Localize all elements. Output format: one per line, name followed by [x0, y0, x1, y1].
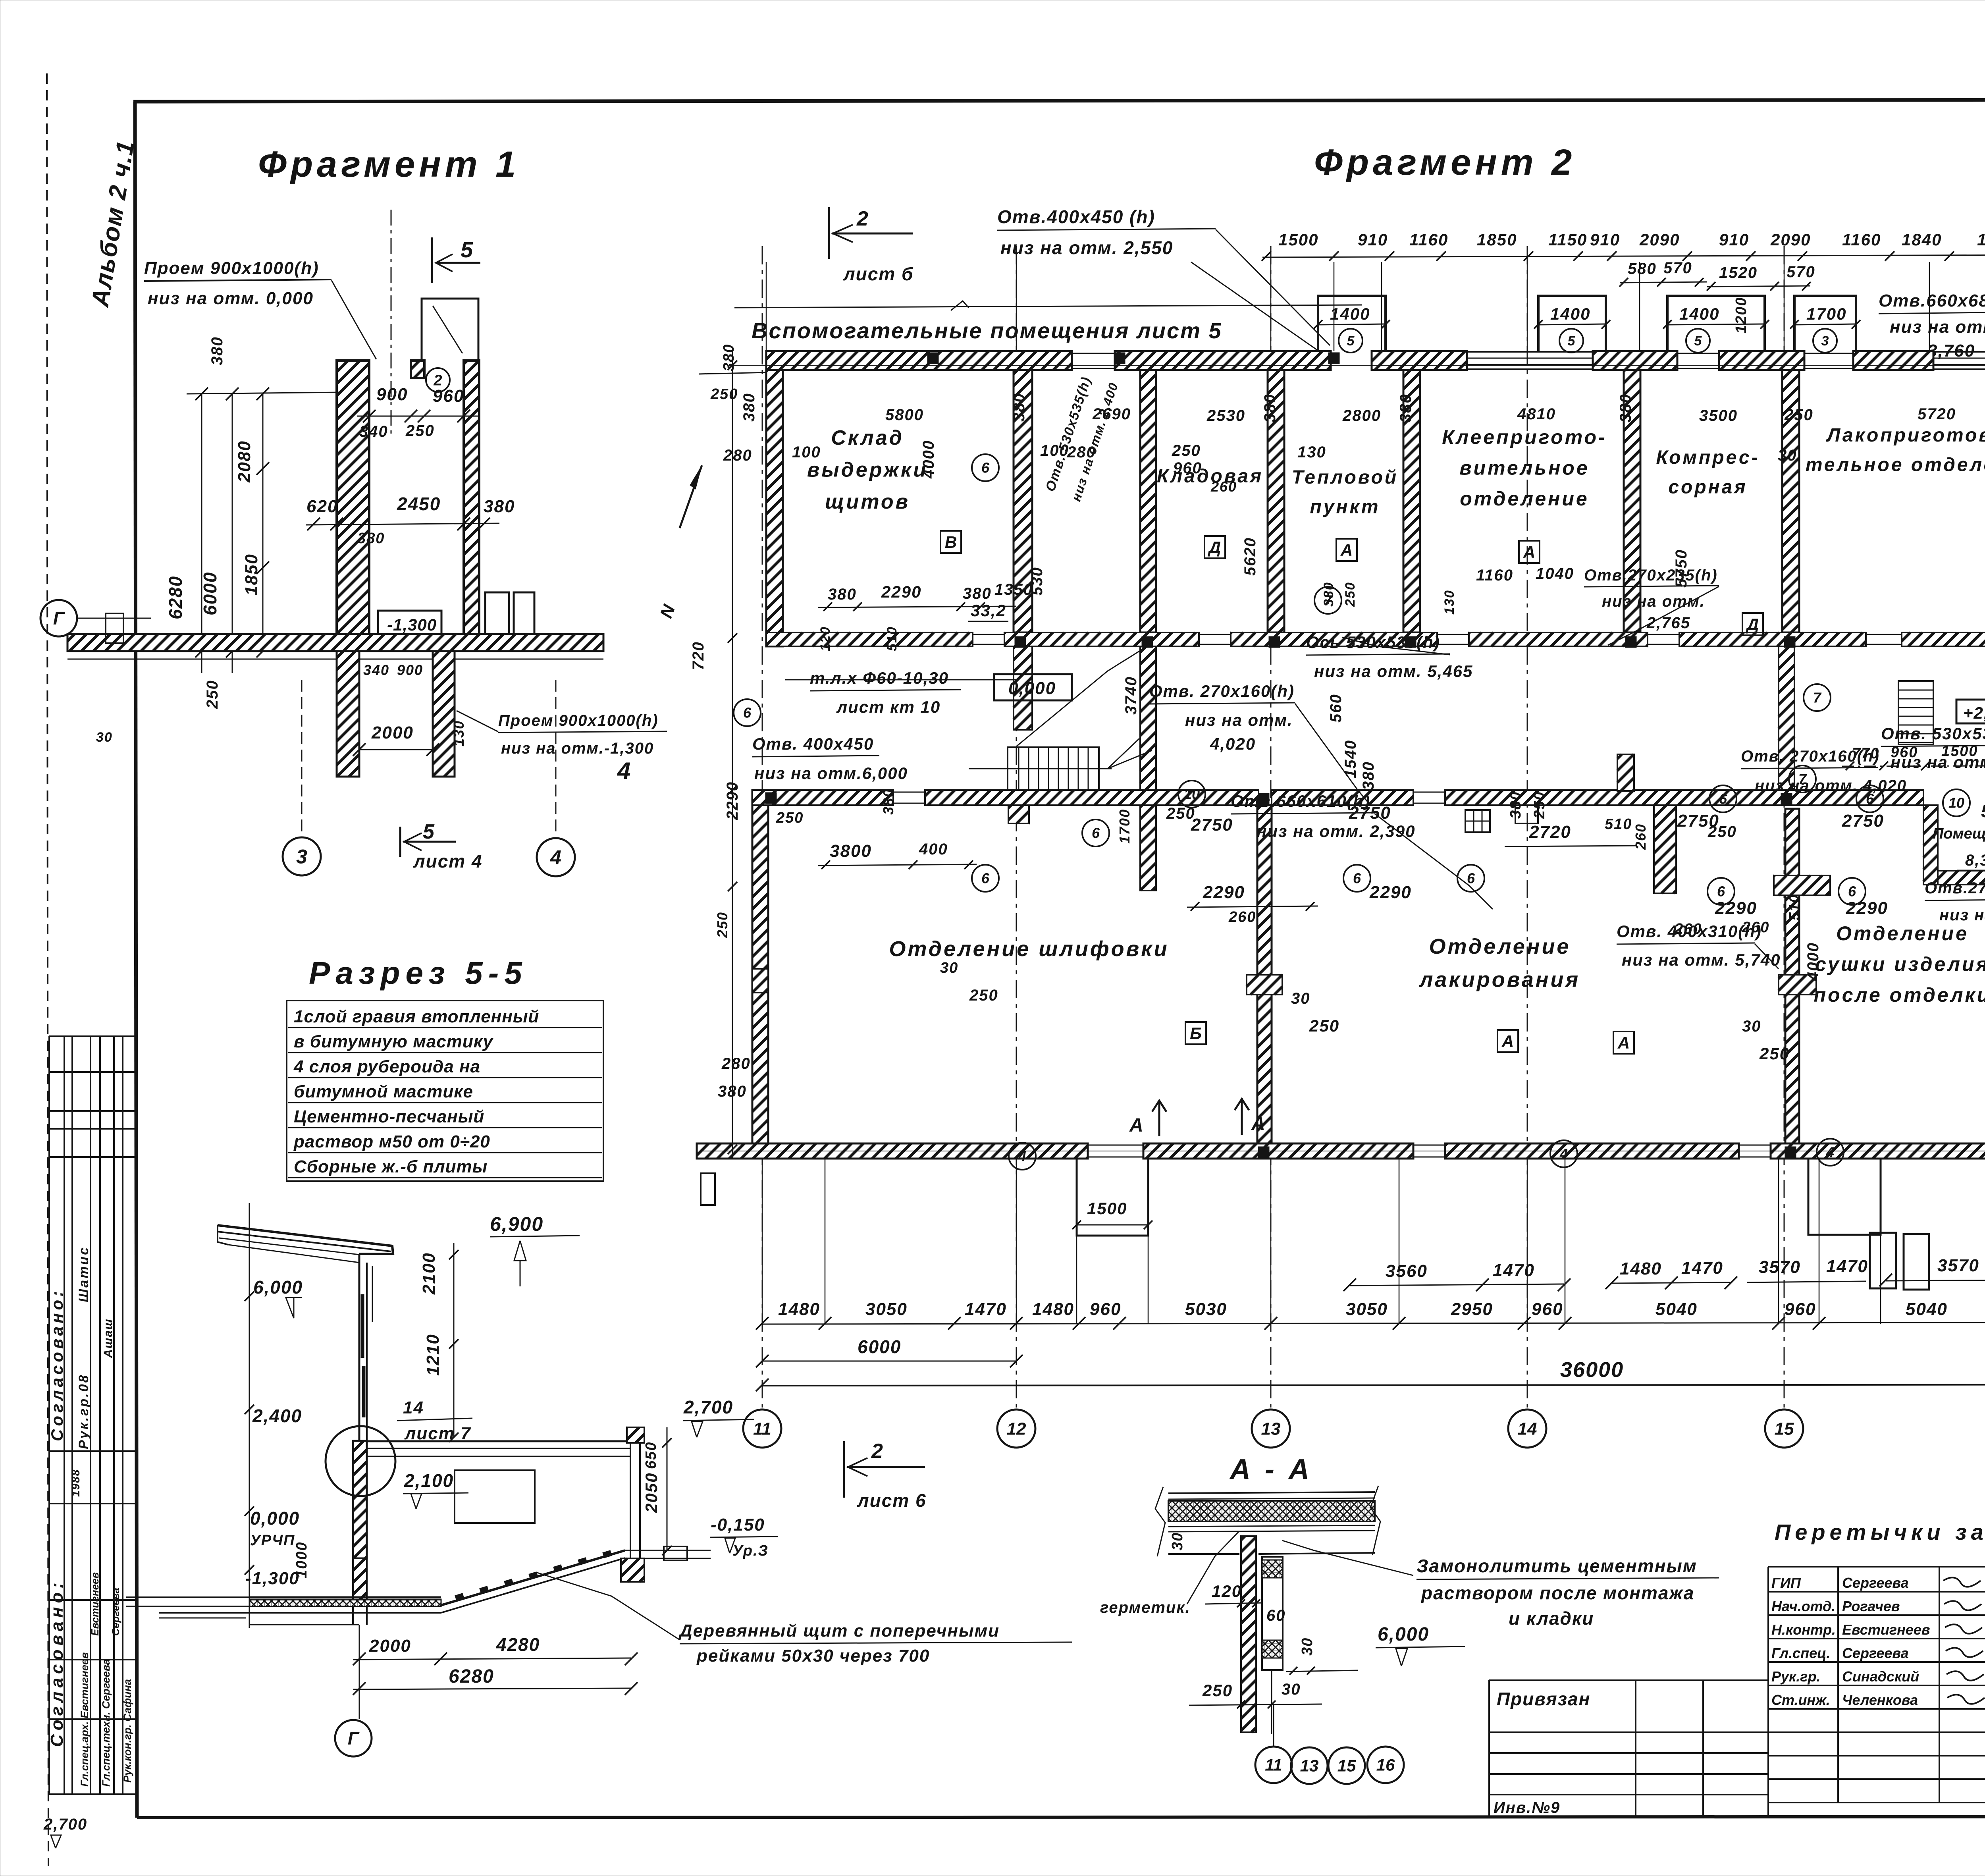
- left level dim line: [249, 1203, 250, 1628]
- wall: [1617, 754, 1634, 791]
- marker 2 list 6 (bottom): [843, 1441, 845, 1498]
- svg-text:250: 250: [1759, 1044, 1790, 1063]
- svg-text:лист 4: лист 4: [413, 851, 483, 871]
- svg-text:250: 250: [204, 680, 221, 709]
- svg-text:900: 900: [376, 385, 408, 404]
- svg-text:и кладки: и кладки: [1509, 1608, 1594, 1629]
- svg-text:Отв. 400х310(h): Отв. 400х310(h): [1617, 922, 1762, 941]
- entry porch 1500: [1077, 1159, 1148, 1236]
- svg-text:1160: 1160: [1476, 567, 1513, 584]
- svg-text:650: 650: [643, 1442, 659, 1469]
- note vspomogatelnye: [734, 305, 1362, 308]
- svg-text:Ур.З: Ур.З: [732, 1542, 769, 1559]
- svg-text:5720: 5720: [1918, 405, 1956, 423]
- lintel circle 7: [1314, 587, 1341, 614]
- svg-text:380: 380: [484, 497, 515, 516]
- svg-text:3570: 3570: [1937, 1256, 1979, 1275]
- svg-text:Проем 900х1000(h): Проем 900х1000(h): [498, 712, 659, 729]
- svg-text:15: 15: [1337, 1756, 1356, 1775]
- svg-text:Отв.660х685(h): Отв.660х685(h): [1879, 291, 1985, 310]
- wall: [752, 969, 768, 993]
- svg-text:2090: 2090: [1770, 230, 1811, 249]
- svg-text:6000: 6000: [858, 1336, 901, 1357]
- svg-text:А: А: [1617, 1033, 1630, 1052]
- lintel circle 6: [1707, 878, 1734, 905]
- svg-text:250: 250: [1202, 1681, 1233, 1700]
- svg-text:Цементно-песчаный: Цементно-песчаный: [294, 1107, 484, 1126]
- svg-text:низ на отм.: низ на отм.: [1890, 317, 1985, 337]
- svg-text:2,700: 2,700: [683, 1397, 733, 1417]
- svg-text:5: 5: [1347, 334, 1355, 349]
- wall: [1140, 646, 1156, 790]
- svg-text:60: 60: [1266, 1607, 1286, 1624]
- svg-text:Сергеева: Сергеева: [110, 1588, 121, 1636]
- svg-text:Деревянный щит с поперечными: Деревянный щит с поперечными: [678, 1621, 1000, 1641]
- svg-text:1850: 1850: [242, 553, 261, 596]
- fragment1 bottom circles: [301, 680, 303, 836]
- svg-text:30: 30: [1299, 1637, 1316, 1656]
- fragment1 left dim chains: [201, 393, 202, 673]
- svg-text:960: 960: [433, 386, 464, 406]
- svg-text:1400: 1400: [1330, 305, 1370, 323]
- fragment1 wall above cut: [422, 299, 478, 361]
- small room left wall: [1923, 805, 1938, 885]
- svg-text:Ось 530х535(h): Ось 530х535(h): [1306, 633, 1440, 652]
- svg-text:13: 13: [1300, 1756, 1319, 1775]
- svg-text:битумной мастике: битумной мастике: [294, 1082, 473, 1101]
- svg-text:340: 340: [363, 662, 389, 678]
- svg-text:8,3: 8,3: [1965, 852, 1985, 869]
- frame top border: [133, 99, 1985, 102]
- svg-text:Сборные ж.-б плиты: Сборные ж.-б плиты: [294, 1157, 488, 1176]
- top-band partition wall x3193: [1268, 370, 1284, 632]
- svg-text:-1,300: -1,300: [245, 1569, 300, 1588]
- svg-text:7: 7: [1324, 592, 1333, 609]
- svg-text:низ на отм. 2,390: низ на отм. 2,390: [1257, 822, 1415, 841]
- svg-text:6: 6: [1353, 870, 1361, 887]
- svg-text:36000: 36000: [1560, 1358, 1624, 1382]
- svg-text:3: 3: [296, 846, 307, 868]
- svg-text:30: 30: [1282, 1681, 1301, 1698]
- svg-text:низ на отм.-1,300: низ на отм.-1,300: [501, 740, 654, 757]
- small window left: [106, 613, 123, 643]
- grid circle 3: [283, 837, 321, 875]
- svg-text:5030: 5030: [1185, 1300, 1227, 1319]
- vertical extension lines bottom: [762, 1159, 763, 1324]
- window symbol 2: [514, 592, 534, 637]
- svg-text:250: 250: [1172, 442, 1201, 459]
- fragment1 floor slab (hatched): [67, 634, 603, 651]
- svg-text:т.л.х Ф60-10,30: т.л.х Ф60-10,30: [810, 669, 949, 687]
- svg-text:30: 30: [1742, 1018, 1761, 1035]
- svg-text:2750: 2750: [1677, 811, 1719, 831]
- svg-text:1040: 1040: [1536, 565, 1574, 582]
- svg-text:6: 6: [981, 460, 990, 476]
- svg-text:15: 15: [1775, 1419, 1794, 1438]
- svg-text:6280: 6280: [449, 1666, 494, 1687]
- top wall opening x4225-4330: [1677, 353, 1719, 354]
- section mark 5 (top): [431, 237, 433, 283]
- svg-text:510: 510: [1605, 816, 1632, 833]
- lintel circle 10: [1943, 789, 1970, 816]
- section mark 5 list4: [399, 827, 401, 857]
- 6000 dim row: [762, 1361, 1016, 1362]
- svg-text:А: А: [1523, 543, 1535, 561]
- fragment1 lower wall B: [433, 651, 455, 777]
- svg-text:А: А: [1501, 1032, 1514, 1051]
- leader note: [1282, 1541, 1413, 1575]
- wall junction squares: [1015, 636, 1026, 648]
- svg-text:3: 3: [1821, 334, 1829, 349]
- dim row above pomeschenie: [1842, 765, 1985, 766]
- svg-text:низ на отм. 4,020: низ на отм. 4,020: [1755, 777, 1907, 794]
- lintel circle 6: [1839, 878, 1866, 905]
- sheet left edge dashed line: [47, 73, 48, 1866]
- svg-text:1480: 1480: [1620, 1259, 1662, 1278]
- svg-text:А: А: [1340, 541, 1353, 559]
- svg-text:1500: 1500: [1278, 230, 1318, 249]
- svg-text:Евстигнеев: Евстигнеев: [1842, 1621, 1930, 1638]
- svg-text:380: 380: [208, 336, 226, 365]
- svg-text:720: 720: [690, 641, 707, 670]
- svg-text:400: 400: [919, 841, 948, 858]
- svg-text:2750: 2750: [1842, 811, 1884, 831]
- lintel circle 4: [1550, 1140, 1577, 1167]
- north arrow: [680, 465, 702, 528]
- privyazan box: [1489, 1679, 1768, 1681]
- roof fascia left: [218, 1225, 228, 1245]
- lintel circle 7: [1789, 765, 1816, 792]
- vestibule 1700: [1794, 296, 1856, 351]
- svg-text:13: 13: [1261, 1419, 1281, 1438]
- svg-text:960: 960: [1532, 1300, 1563, 1319]
- grid circle G razrez: [335, 1720, 372, 1756]
- exterior top wall segment x4012-4225: [1593, 351, 1677, 370]
- svg-text:570: 570: [1663, 259, 1692, 277]
- svg-text:1210: 1210: [423, 1334, 443, 1376]
- mid wall1 segment x3100: [1231, 632, 1437, 646]
- lintel circle 5: [1339, 329, 1363, 353]
- svg-text:0,000: 0,000: [250, 1508, 300, 1529]
- 36000 dim line: [762, 1384, 1985, 1386]
- svg-text:2720: 2720: [1529, 822, 1571, 842]
- stair arrow: [1108, 738, 1152, 769]
- svg-text:6,000: 6,000: [1378, 1624, 1429, 1645]
- svg-text:1000: 1000: [293, 1541, 310, 1578]
- break mark right: [1370, 1486, 1380, 1555]
- leader to ramp: [536, 1572, 680, 1640]
- ramp line: [441, 1550, 625, 1605]
- svg-text:2950: 2950: [1451, 1300, 1493, 1319]
- room class box В: [940, 531, 961, 553]
- bottom wall segment x3640: [1445, 1143, 1739, 1159]
- mid wall2 segment x2330: [925, 790, 1258, 805]
- svg-text:380: 380: [1617, 393, 1634, 422]
- svg-text:низ на отм. 5,465: низ на отм. 5,465: [1314, 662, 1473, 681]
- svg-text:тельное отделение: тельное отделение: [1806, 454, 1985, 475]
- svg-text:низ на отм. 5,740: низ на отм. 5,740: [1622, 951, 1781, 969]
- svg-text:2050: 2050: [642, 1473, 661, 1513]
- wall upper column: [358, 1254, 360, 1441]
- svg-text:Рук.гр.: Рук.гр.: [1771, 1668, 1821, 1685]
- svg-text:6280: 6280: [165, 576, 186, 619]
- svg-text:380: 380: [828, 586, 857, 603]
- slab layers: [1168, 1492, 1375, 1493]
- svg-text:А: А: [1251, 1113, 1266, 1134]
- svg-text:120: 120: [818, 626, 833, 651]
- svg-text:510: 510: [1786, 894, 1802, 920]
- stair landing edge line: [785, 679, 1016, 681]
- level box +2.500: [1956, 700, 1985, 723]
- grid circle 14: [1508, 1409, 1546, 1448]
- svg-text:250: 250: [714, 912, 730, 938]
- svg-text:2080: 2080: [235, 440, 254, 483]
- svg-text:250: 250: [776, 810, 804, 826]
- door notch below band: [1515, 805, 1538, 823]
- lintel circle 6: [1457, 865, 1484, 892]
- svg-text:УРЧП: УРЧП: [250, 1532, 295, 1549]
- grid square symbol: [1465, 810, 1490, 832]
- lintel circle 3: [1813, 329, 1837, 353]
- svg-text:Гл.спец.техн. Сергеева: Гл.спец.техн. Сергеева: [100, 1659, 112, 1787]
- svg-text:3740: 3740: [1122, 676, 1140, 715]
- svg-text:910: 910: [1358, 230, 1388, 249]
- svg-text:1160: 1160: [1842, 230, 1881, 249]
- svg-text:280: 280: [723, 447, 752, 464]
- svg-text:4: 4: [1559, 1146, 1568, 1162]
- svg-text:4: 4: [617, 758, 631, 784]
- stair enclosure wall: [1014, 646, 1032, 730]
- grid circle 12: [997, 1409, 1035, 1448]
- svg-text:Отв. 530х535(h): Отв. 530х535(h): [1881, 724, 1985, 743]
- kerb block: [664, 1546, 687, 1560]
- svg-text:Д: Д: [1208, 538, 1221, 557]
- pilaster on partition: [1774, 875, 1830, 895]
- svg-text:низ на отм.6,000: низ на отм.6,000: [754, 764, 908, 783]
- section wall hatched below 0: [353, 1558, 367, 1604]
- column line 12: [1016, 246, 1017, 1407]
- wall: [621, 1558, 644, 1582]
- svg-text:1150: 1150: [1548, 230, 1587, 249]
- fragment1 dim 900/960: [357, 416, 478, 417]
- left wall step connector: [752, 789, 766, 791]
- vestibule 1400: [1318, 296, 1386, 351]
- svg-text:510: 510: [885, 626, 900, 651]
- grid circle 13 (A-A): [1291, 1747, 1328, 1784]
- svg-text:250: 250: [1531, 791, 1548, 819]
- row mark G (fragment1): [40, 600, 77, 636]
- mid wall1 segment x1930: [766, 632, 973, 646]
- lintel circle 6: [1709, 785, 1736, 812]
- svg-text:отделение: отделение: [1460, 488, 1589, 510]
- frame left border: [135, 102, 137, 1818]
- svg-text:5140: 5140: [1981, 802, 1985, 821]
- lintel circle 6: [1082, 819, 1109, 846]
- svg-text:1840: 1840: [1902, 230, 1942, 249]
- svg-text:1520: 1520: [1719, 264, 1758, 281]
- lintel circle 4: [1817, 1139, 1844, 1166]
- svg-text:1470: 1470: [1493, 1261, 1535, 1280]
- svg-text:рейками 50х30 через 700: рейками 50х30 через 700: [696, 1646, 930, 1666]
- partition lakirovanie/sushka: [1785, 809, 1799, 1143]
- grid circle 13: [1252, 1409, 1290, 1448]
- svg-text:960: 960: [1090, 1300, 1121, 1319]
- svg-text:570: 570: [1786, 263, 1815, 281]
- mid wall1 segment x3700: [1469, 632, 1648, 646]
- left exterior wall (top part): [766, 370, 783, 646]
- ground line right: [625, 1550, 711, 1551]
- svg-text:1400: 1400: [1679, 305, 1719, 323]
- svg-text:1700: 1700: [1116, 809, 1133, 844]
- svg-text:2000: 2000: [371, 723, 414, 742]
- lintel circle 10: [1178, 781, 1205, 808]
- svg-text:5: 5: [1568, 334, 1576, 349]
- svg-text:380: 380: [1397, 393, 1415, 422]
- svg-text:Гл.спец.: Гл.спец.: [1771, 1645, 1830, 1661]
- svg-text:Рогачев: Рогачев: [1842, 1598, 1900, 1614]
- svg-text:Фрагмент 1: Фрагмент 1: [258, 144, 520, 185]
- svg-text:340: 340: [359, 423, 388, 440]
- fragment1 dim 620/2450/380: [306, 523, 499, 525]
- svg-text:5: 5: [461, 237, 474, 262]
- svg-text:Н.контр.: Н.контр.: [1771, 1621, 1836, 1638]
- svg-text:6: 6: [1719, 791, 1727, 807]
- svg-text:6: 6: [1848, 883, 1856, 900]
- svg-text:1850: 1850: [1477, 230, 1517, 249]
- svg-text:Инв.№9: Инв.№9: [1494, 1799, 1560, 1816]
- exterior top wall segment x4668-4870: [1853, 351, 1933, 370]
- mid wall2 segment x3203: [1272, 790, 1413, 805]
- column line 13: [1270, 246, 1272, 1407]
- lintel circle 5: [1686, 329, 1710, 353]
- svg-text:30: 30: [1778, 447, 1797, 464]
- svg-text:4: 4: [1018, 1148, 1026, 1165]
- fragment1 wall B (hatched): [464, 361, 479, 634]
- svg-text:1470: 1470: [1826, 1257, 1868, 1276]
- room class box А: [1613, 1032, 1634, 1054]
- top wall window band x3695-4012: [1467, 351, 1593, 353]
- small room bottom wall: [1923, 871, 1985, 885]
- room class box А: [1519, 541, 1540, 563]
- svg-text:Синадский: Синадский: [1842, 1668, 1919, 1685]
- svg-text:580: 580: [1628, 260, 1657, 278]
- svg-text:1200: 1200: [1733, 297, 1750, 334]
- fragment1 wall stub: [411, 361, 424, 378]
- lintel circle 7: [1804, 684, 1831, 711]
- window pair below: [1870, 1233, 1896, 1288]
- svg-text:выдержки: выдержки: [807, 459, 928, 482]
- svg-text:Клеепригото-: Клеепригото-: [1442, 426, 1607, 448]
- svg-text:5620: 5620: [1241, 537, 1259, 576]
- svg-text:250: 250: [1784, 406, 1813, 424]
- svg-text:910: 910: [1719, 230, 1749, 249]
- top wall opening x2700-2808: [1072, 353, 1115, 354]
- svg-text:Рук.кон.гр. Сафина: Рук.кон.гр. Сафина: [121, 1679, 133, 1783]
- svg-text:900: 900: [397, 662, 423, 678]
- svg-text:2090: 2090: [1639, 230, 1680, 249]
- svg-text:250: 250: [405, 422, 435, 440]
- svg-text:4000: 4000: [920, 440, 937, 479]
- ground hatch razrez: [126, 1606, 249, 1607]
- svg-text:раствором после монтажа: раствором после монтажа: [1420, 1583, 1694, 1603]
- svg-text:2290: 2290: [1846, 898, 1888, 918]
- svg-text:Отделение: Отделение: [1429, 935, 1571, 958]
- svg-text:380: 380: [1507, 791, 1524, 819]
- canopy slab at 2.400: [367, 1440, 631, 1442]
- grid circle 15: [1765, 1409, 1803, 1448]
- svg-text:2450: 2450: [397, 494, 441, 514]
- svg-text:Отв. 270х160(h): Отв. 270х160(h): [1741, 748, 1880, 765]
- svg-text:Шатис: Шатис: [76, 1246, 91, 1302]
- lintel circle 6: [1856, 785, 1883, 812]
- svg-text:Рук.гр.08: Рук.гр.08: [76, 1374, 91, 1449]
- svg-text:30: 30: [940, 960, 958, 976]
- svg-text:130: 130: [1297, 443, 1326, 461]
- svg-text:6,900: 6,900: [490, 1213, 543, 1235]
- svg-text:260: 260: [1228, 909, 1256, 925]
- svg-text:низ на отм.: низ на отм.: [1602, 593, 1705, 610]
- fragment1 wall A (hatched): [337, 361, 369, 634]
- svg-text:после отделки: после отделки: [1814, 984, 1985, 1006]
- svg-text:Тепловой: Тепловой: [1292, 467, 1399, 488]
- svg-text:3050: 3050: [1346, 1300, 1388, 1319]
- mid wall1 segment x2530: [1004, 632, 1199, 646]
- svg-text:1слой гравия втопленный: 1слой гравия втопленный: [294, 1007, 539, 1026]
- svg-text:-0,150: -0,150: [711, 1515, 765, 1535]
- svg-text:Замонолитить цементным: Замонолитить цементным: [1416, 1556, 1697, 1576]
- detail circle: [326, 1426, 395, 1496]
- svg-text:16: 16: [1376, 1756, 1395, 1774]
- vestibule 1400: [1667, 296, 1765, 351]
- partition shlifovka/lakirovanie: [1257, 805, 1272, 1143]
- bottom wall segment x1755: [697, 1143, 1088, 1159]
- svg-text:Ст.инж.: Ст.инж.: [1771, 1692, 1830, 1708]
- svg-text:2290: 2290: [1203, 883, 1245, 902]
- svg-text:960: 960: [1173, 459, 1202, 477]
- lintel circle 5: [1559, 329, 1583, 353]
- svg-text:3500: 3500: [1699, 407, 1738, 424]
- svg-text:6: 6: [1092, 825, 1100, 841]
- svg-text:380: 380: [880, 789, 896, 815]
- svg-text:380: 380: [963, 585, 992, 602]
- svg-text:Склад: Склад: [831, 426, 904, 449]
- svg-text:Вспомогательные помещения ли: Вспомогательные помещения лист 5: [752, 318, 1222, 343]
- svg-text:30: 30: [96, 730, 113, 745]
- bottom dim chain row A (partial): [1350, 1284, 1564, 1286]
- svg-text:12: 12: [1007, 1419, 1026, 1438]
- svg-text:-1,300: -1,300: [387, 615, 437, 634]
- svg-text:Согласовано:: Согласовано:: [47, 1579, 67, 1747]
- svg-text:250: 250: [1309, 1016, 1339, 1035]
- svg-text:2,100: 2,100: [404, 1470, 454, 1491]
- svg-text:1160: 1160: [1409, 230, 1448, 249]
- top-band partition wall x3535: [1403, 370, 1420, 632]
- svg-text:пункт: пункт: [1310, 496, 1380, 517]
- wall 2872 below band: [1140, 805, 1156, 891]
- svg-text:4,020: 4,020: [1210, 735, 1256, 753]
- svg-text:лист 6: лист 6: [857, 1490, 927, 1511]
- svg-text:14: 14: [403, 1398, 424, 1417]
- svg-text:Отв.660х610(h): Отв.660х610(h): [1231, 792, 1370, 810]
- svg-text:4: 4: [1826, 1144, 1834, 1161]
- svg-text:250: 250: [969, 987, 998, 1004]
- mid wall1 segment x4790: [1902, 632, 1985, 646]
- left margin approval table: [48, 1036, 50, 1794]
- svg-text:1480: 1480: [1032, 1300, 1074, 1319]
- svg-text:6: 6: [1717, 883, 1725, 900]
- svg-text:2800: 2800: [1342, 407, 1381, 424]
- svg-text:1500: 1500: [1087, 1199, 1127, 1218]
